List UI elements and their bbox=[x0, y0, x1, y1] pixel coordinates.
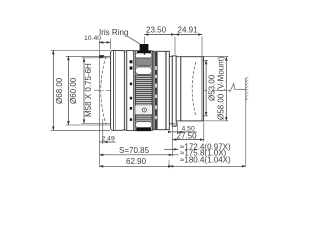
svg-text:Ø68.00: Ø68.00 bbox=[55, 77, 64, 104]
front barrel Ø68 bbox=[111, 50, 125, 130]
knurled focus/iris ring column bbox=[135, 51, 152, 131]
axis to image plane bbox=[238, 88, 246, 90]
hidden front lens element (dashed arc) bbox=[101, 57, 106, 125]
small gap bbox=[133, 51, 135, 131]
hidden rear lens element (dashed arc) bbox=[192, 62, 196, 116]
ext line front vertex (long, also for S and 62.90) bbox=[98, 40, 100, 167]
mount base ring bbox=[176, 57, 181, 121]
svg-text:2.49: 2.49 bbox=[102, 135, 115, 142]
index tick under knob bbox=[144, 53, 145, 55]
mount cylinder bbox=[181, 57, 204, 121]
white pill band 2 bbox=[135, 67, 151, 74]
white pill band 1 bbox=[135, 53, 151, 58]
svg-text:≈180.4(1.04X): ≈180.4(1.04X) bbox=[180, 156, 231, 165]
white window oval bottom bbox=[135, 122, 151, 128]
centerline (optical axis) bbox=[94, 89, 230, 91]
lock dot band bbox=[135, 105, 152, 114]
knurl stripes lower bbox=[135, 114, 152, 121]
svg-text:S=70.85: S=70.85 bbox=[119, 146, 150, 155]
neck bbox=[169, 56, 172, 124]
svg-text:Iris Ring: Iris Ring bbox=[99, 28, 128, 37]
band 1 bbox=[124, 51, 126, 130]
svg-text:M58 X 0.75-6H: M58 X 0.75-6H bbox=[84, 63, 93, 117]
svg-text:Ø60.00: Ø60.00 bbox=[69, 77, 78, 104]
svg-text:Ø53.00: Ø53.00 bbox=[208, 74, 217, 101]
image plane (hatched) bbox=[245, 78, 247, 102]
front hood tab (black) bbox=[100, 55, 105, 58]
V-mount flange bbox=[172, 56, 176, 126]
knurl stripes upper bbox=[135, 75, 152, 106]
svg-text:23.50: 23.50 bbox=[146, 25, 167, 34]
engraved model ring (dark band with white text specks) bbox=[154, 52, 157, 129]
mid barrel section bbox=[153, 51, 169, 129]
svg-text:27.50: 27.50 bbox=[177, 131, 198, 140]
axis break (foreshortening zigzag) bbox=[230, 84, 238, 93]
flange notch bbox=[173, 123, 175, 126]
svg-text:Ø58.00 (V-Mount): Ø58.00 (V-Mount) bbox=[216, 56, 225, 120]
dark iris grip band bbox=[136, 58, 152, 66]
svg-text:24.91: 24.91 bbox=[178, 25, 199, 34]
svg-text:62.90: 62.90 bbox=[126, 157, 147, 166]
bottom black band (iris tab lower) bbox=[136, 128, 151, 132]
band 2 with index marks bbox=[127, 51, 134, 131]
iris knob bbox=[137, 51, 151, 53]
